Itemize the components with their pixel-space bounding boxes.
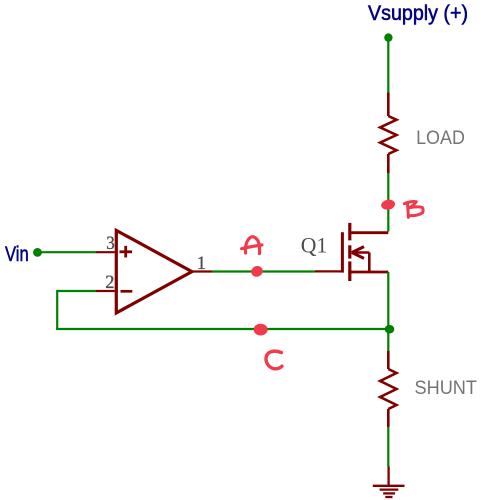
- wire feedback bottom horizontal: [56, 328, 388, 330]
- node junction dot: [385, 325, 395, 334]
- node A annotation letter: [242, 237, 262, 254]
- svg-text:SHUNT: SHUNT: [415, 377, 478, 399]
- node Vsupply power dot: [384, 33, 392, 41]
- svg-text:2: 2: [105, 273, 114, 293]
- transistor Q1: [315, 223, 388, 281]
- svg-text:1: 1: [197, 254, 206, 274]
- svg-text:Vin: Vin: [5, 243, 29, 266]
- wire feedback pin2 horizontal: [57, 290, 96, 292]
- wire Vin to op-amp pin 3: [38, 251, 97, 253]
- wire LOAD to Q1 drain: [387, 173, 389, 232]
- node B annotation letter: [404, 201, 423, 217]
- node C annotation letter: [266, 351, 282, 369]
- ground: [373, 467, 405, 498]
- resistor LOAD: [380, 93, 396, 174]
- wire op-amp output to Q1 gate: [212, 270, 315, 272]
- node B annotation dot: [380, 199, 396, 211]
- wire Vsupply to LOAD: [387, 38, 389, 93]
- node C annotation dot: [254, 324, 268, 336]
- node Vin dot: [33, 248, 42, 257]
- wire feedback left vertical: [56, 290, 58, 329]
- wire SHUNT to ground: [387, 427, 389, 467]
- svg-text:Q1: Q1: [301, 232, 328, 257]
- node A annotation dot: [250, 264, 265, 278]
- svg-text:LOAD: LOAD: [416, 127, 465, 149]
- svg-text:Vsupply (+): Vsupply (+): [368, 2, 468, 25]
- svg-text:3: 3: [106, 234, 115, 254]
- resistor SHUNT: [380, 351, 396, 427]
- wire Q1 source to junction: [387, 272, 389, 351]
- op-amp: [96, 230, 212, 313]
